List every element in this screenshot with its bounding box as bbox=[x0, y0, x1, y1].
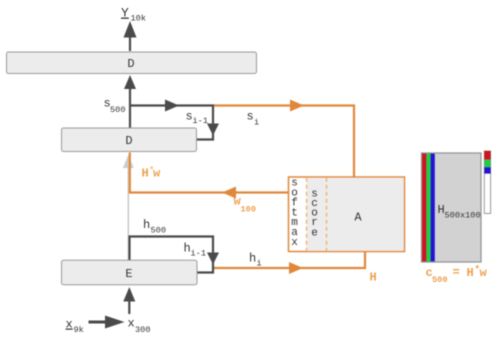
svg-text:H: H bbox=[467, 266, 474, 280]
svg-text:E: E bbox=[125, 267, 132, 281]
svg-text:h: h bbox=[143, 218, 150, 232]
box D2 (decoder) bbox=[62, 128, 197, 152]
separator dashed 1 bbox=[306, 178, 308, 251]
svg-text:500: 500 bbox=[151, 226, 166, 236]
wire h_i orange to attention bbox=[214, 251, 365, 268]
stripe blue bbox=[431, 154, 435, 262]
node c_500 = H*w label bbox=[426, 265, 488, 286]
svg-text:500: 500 bbox=[432, 275, 447, 285]
svg-text:9k: 9k bbox=[74, 325, 84, 335]
svg-text:e: e bbox=[311, 228, 318, 240]
svg-text:=: = bbox=[453, 266, 460, 280]
separator dashed 2 bbox=[326, 178, 328, 251]
svg-text:300: 300 bbox=[135, 325, 150, 335]
wire H*w orange context into D2 bbox=[130, 153, 289, 193]
node H*w label bbox=[142, 166, 162, 181]
svg-text:i-1: i-1 bbox=[191, 248, 206, 258]
svg-text:100: 100 bbox=[241, 205, 256, 215]
svg-text:i: i bbox=[254, 118, 259, 128]
svg-text:Y: Y bbox=[121, 6, 129, 21]
wire s_i orange to attention A bbox=[214, 106, 354, 178]
node x_300 label bbox=[128, 317, 151, 336]
wire h_500 / h_i-1 feedback path bbox=[130, 237, 214, 273]
svg-text:A: A bbox=[354, 211, 362, 225]
svg-text:H: H bbox=[370, 271, 377, 285]
node s_i label bbox=[247, 110, 260, 128]
svg-text:H: H bbox=[142, 167, 149, 181]
node h_i label bbox=[249, 252, 262, 269]
node w_100 label bbox=[234, 195, 256, 215]
node softmax vertical label bbox=[291, 178, 298, 250]
wire s_i-1 feedback path bbox=[130, 106, 213, 140]
legend w vector bar bbox=[484, 151, 490, 214]
node h_i-1 label bbox=[184, 242, 206, 259]
svg-text:x: x bbox=[291, 237, 298, 249]
stripe green bbox=[426, 154, 430, 262]
node x_9k label bbox=[66, 318, 84, 336]
svg-text:x: x bbox=[66, 318, 73, 332]
svg-text:500: 500 bbox=[110, 105, 125, 115]
box H matrix 500x100 bbox=[422, 153, 482, 262]
svg-text:D: D bbox=[125, 134, 132, 148]
svg-text:D: D bbox=[127, 57, 134, 71]
wire Y output arrow bbox=[124, 21, 137, 51]
svg-text:w: w bbox=[153, 167, 161, 181]
svg-text:w: w bbox=[480, 266, 488, 280]
node s_500 label bbox=[104, 97, 126, 116]
box E (encoder) bbox=[62, 260, 198, 284]
svg-text:i: i bbox=[257, 259, 262, 269]
box attention group (softmax | score | A) bbox=[289, 177, 405, 252]
node h_500 label bbox=[143, 218, 166, 236]
svg-text:x: x bbox=[128, 317, 135, 331]
svg-text:500x100: 500x100 bbox=[445, 211, 481, 221]
node score vertical label bbox=[311, 189, 318, 240]
wire embedding arrow x_9k -> x_300 bbox=[89, 316, 125, 329]
stripe red bbox=[422, 154, 426, 262]
svg-text:s: s bbox=[247, 110, 254, 124]
wire faint E -> D edge bbox=[123, 155, 134, 260]
node s_i-1 label bbox=[186, 110, 208, 126]
svg-text:i-1: i-1 bbox=[193, 116, 208, 126]
svg-text:10k: 10k bbox=[131, 14, 146, 24]
wire s_500 arrow D2 -> D1 bbox=[124, 75, 136, 128]
box D1 (output decoder) bbox=[7, 52, 257, 74]
node Y_10k label bbox=[121, 6, 146, 24]
svg-text:h: h bbox=[249, 252, 256, 266]
wire x_300 input arrow bbox=[123, 287, 135, 314]
